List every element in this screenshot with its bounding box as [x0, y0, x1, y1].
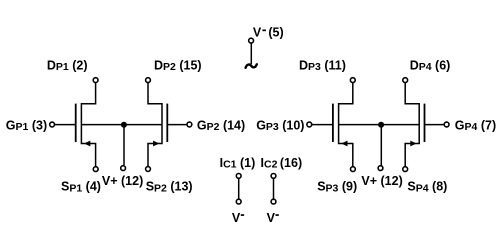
svg-text:DP2 (15): DP2 (15) [154, 58, 202, 73]
svg-text:GP4 (7): GP4 (7) [455, 118, 496, 133]
svg-text:V: V [267, 211, 276, 225]
svg-text:GP3 (10): GP3 (10) [256, 118, 304, 133]
svg-text:IC1 (1): IC1 (1) [220, 156, 256, 171]
svg-text:DP3 (11): DP3 (11) [299, 58, 346, 73]
svg-text:V+ (12): V+ (12) [361, 174, 402, 188]
svg-text:GP1 (3): GP1 (3) [6, 118, 47, 133]
svg-text:SP1 (4): SP1 (4) [61, 179, 101, 194]
svg-text:(5): (5) [268, 25, 283, 39]
svg-text:V: V [232, 211, 241, 225]
svg-text:V+ (12): V+ (12) [102, 174, 143, 188]
svg-text:DP4 (6): DP4 (6) [410, 58, 451, 73]
svg-text:SP3 (9): SP3 (9) [317, 179, 357, 194]
svg-text:IC2 (16): IC2 (16) [261, 156, 303, 171]
svg-text:GP2 (14): GP2 (14) [197, 118, 245, 133]
svg-text:V: V [253, 25, 262, 39]
svg-text:SP4 (8): SP4 (8) [407, 179, 447, 194]
svg-text:DP1 (2): DP1 (2) [47, 58, 88, 73]
svg-text:SP2 (13): SP2 (13) [146, 179, 193, 194]
